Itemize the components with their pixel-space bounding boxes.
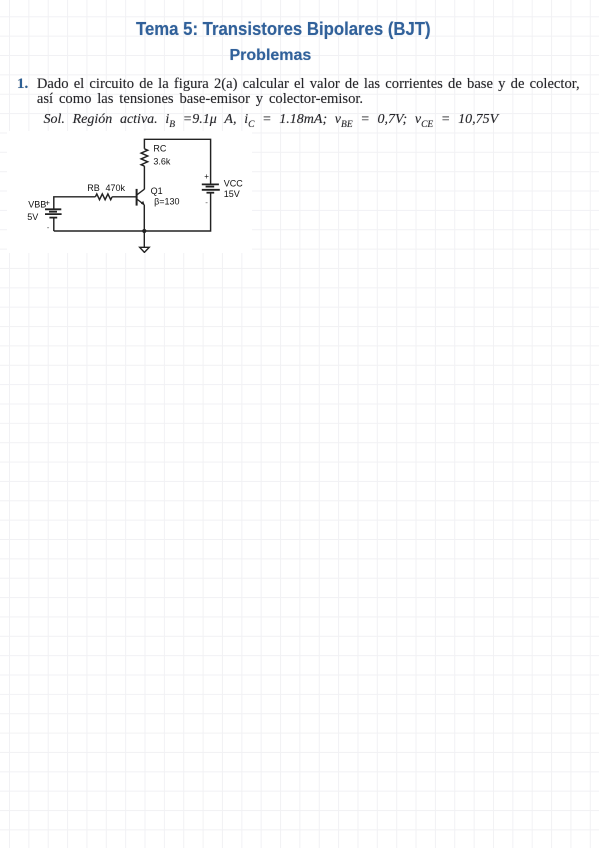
svg-text:-: - — [205, 198, 208, 207]
wire: bottom rail — [54, 193, 211, 231]
wire: top rail from RC top to VCC top — [144, 139, 210, 184]
body line 1 — [37, 77, 580, 92]
white patch under circuit figure — [7, 131, 252, 253]
svg-text:-: - — [47, 223, 50, 232]
wire: emitter down to bottom rail — [143, 205, 145, 231]
wire: VBB bottom stub — [53, 218, 55, 231]
wire: VBB top to RB left — [54, 197, 96, 210]
subtitle: Problemas — [230, 48, 312, 64]
svg-text:470k: 470k — [106, 183, 126, 193]
wire: RB right to Q1 base — [112, 196, 137, 198]
svg-text:RB: RB — [87, 183, 100, 193]
ground — [140, 231, 150, 252]
transistor Q1 (NPN) — [137, 189, 145, 206]
battery VBB — [45, 209, 62, 217]
svg-text:5V: 5V — [27, 212, 38, 222]
svg-text:+: + — [45, 199, 50, 208]
svg-text:+: + — [204, 172, 209, 181]
svg-text:RC: RC — [153, 144, 166, 154]
circuit figure 2(a) — [7, 131, 252, 253]
svg-text:VCC: VCC — [224, 179, 244, 189]
title: Tema 5: Transistores Bipolares (BJT) — [136, 20, 431, 38]
svg-text:Q1: Q1 — [151, 186, 163, 196]
item number 1. — [17, 77, 28, 92]
svg-text:15V: 15V — [224, 189, 240, 199]
body line 2 — [37, 92, 363, 107]
resistor RC (vertical zigzag) — [141, 149, 148, 166]
battery VCC — [202, 184, 220, 192]
resistor RB (horizontal zigzag) — [95, 194, 112, 200]
svg-text:VBB: VBB — [28, 199, 46, 209]
svg-text:β=130: β=130 — [154, 197, 179, 207]
svg-text:3.6k: 3.6k — [153, 157, 171, 167]
solution line (italic) — [44, 113, 499, 132]
node: emitter/bottom-rail junction — [142, 229, 146, 233]
wire: RC bottom to collector — [143, 166, 145, 189]
